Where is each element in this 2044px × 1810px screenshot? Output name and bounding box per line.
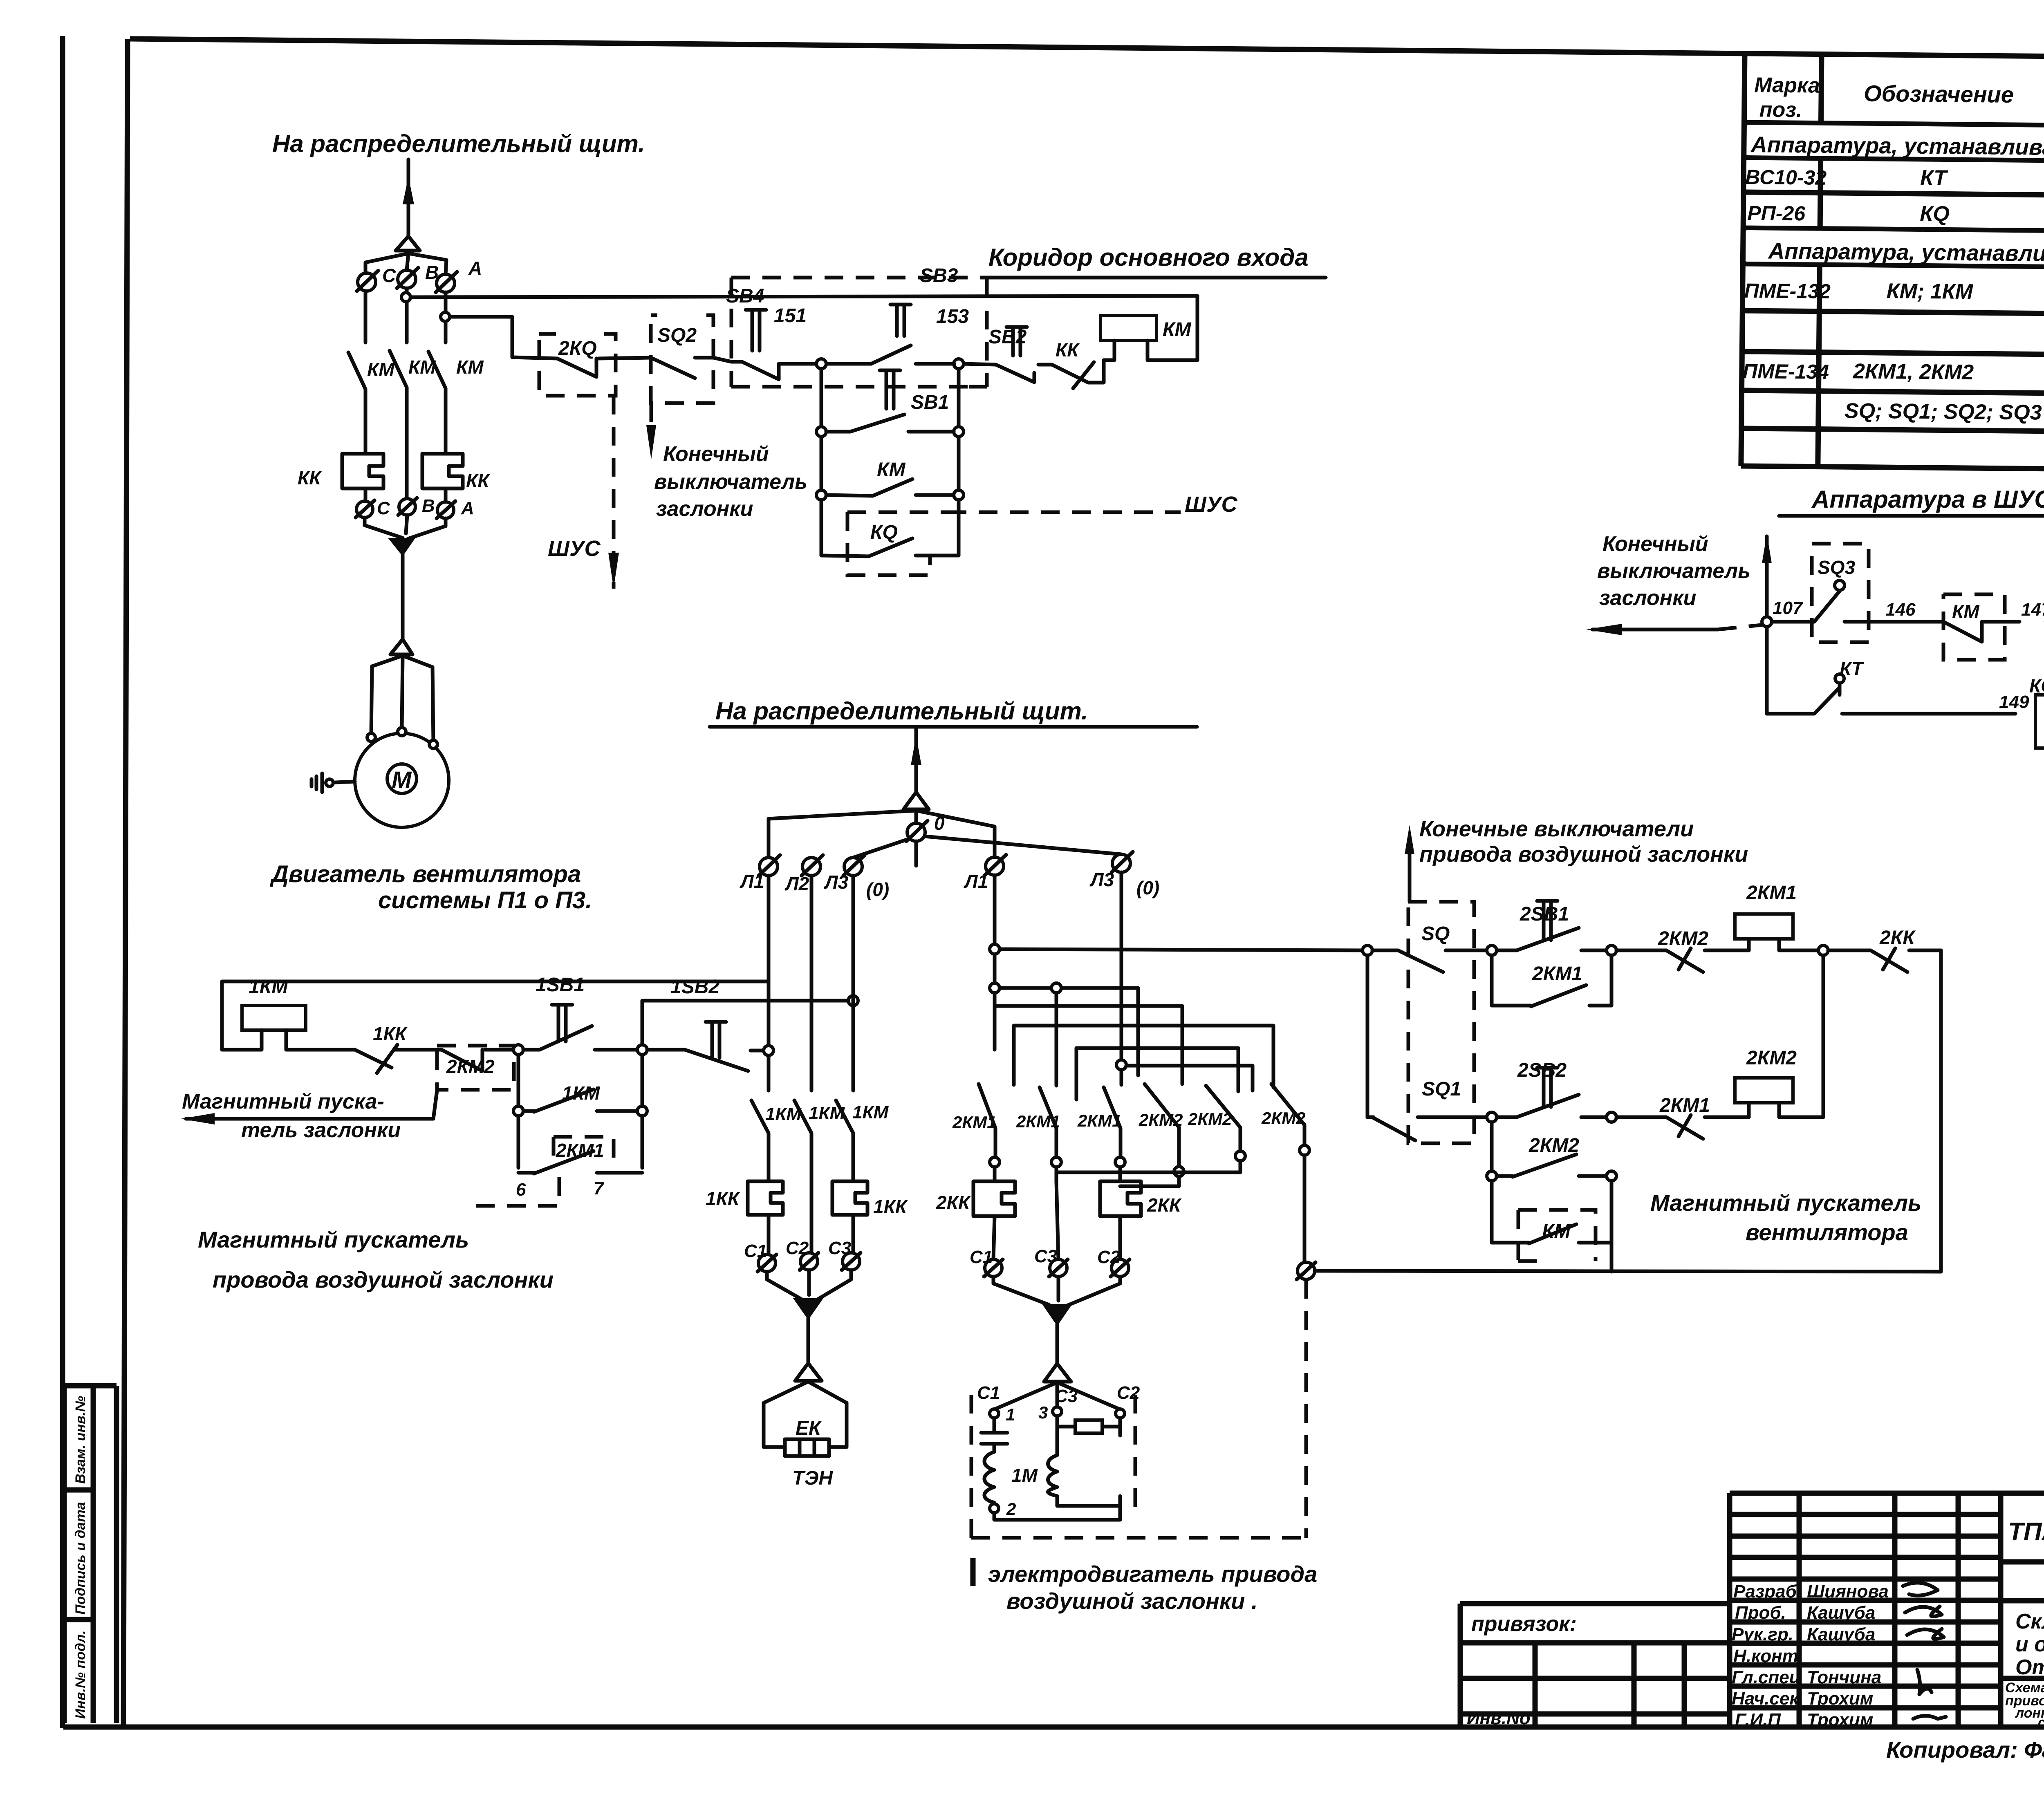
motor terminal circles	[367, 733, 375, 741]
wire: fan-in to cable mark	[767, 1270, 851, 1300]
svg-text:КМ: КМ	[367, 359, 395, 380]
svg-text:2КМ1, 2КМ2: 2КМ1, 2КМ2	[1853, 359, 1974, 384]
wire H6 crossover to c6	[1126, 1066, 1253, 1091]
node r1c	[1818, 945, 1828, 955]
arrow up at SQ box	[1408, 842, 1412, 902]
node 2b	[637, 1106, 647, 1116]
svg-text:SB1: SB1	[911, 392, 949, 413]
terminal circle L2	[802, 858, 820, 876]
svg-text:3: 3	[1038, 1403, 1048, 1422]
svg-text:ТЭН: ТЭН	[792, 1467, 833, 1489]
svg-text:Л3: Л3	[1089, 869, 1114, 890]
terminal circle C	[358, 273, 376, 291]
wire: down from node 1b	[641, 1055, 644, 1168]
svg-text:ШУС: ШУС	[1185, 492, 1237, 517]
svg-text:Рук.гр.: Рук.гр.	[1732, 1624, 1793, 1644]
terminal circle L1 left	[760, 858, 778, 876]
wire: to C circles of motor 2	[993, 1181, 1120, 1259]
contact 2KM2 #4	[1145, 1084, 1179, 1167]
terminal circle C lower	[356, 501, 373, 517]
node on L1 at row	[764, 1046, 773, 1055]
contact 2KM2 (self-hold)	[1497, 1154, 1607, 1177]
dashed enclosure top	[731, 276, 987, 280]
dashed enclosure bottom	[731, 385, 969, 389]
dashed box 2KM1	[554, 1137, 614, 1162]
svg-text:2КМ1: 2КМ1	[1077, 1111, 1122, 1130]
dashed box SQ/SQ1	[1408, 902, 1474, 1143]
terminal circle B lower	[399, 499, 415, 515]
svg-text:146: 146	[1885, 600, 1916, 620]
svg-text:2КМ1: 2КМ1	[556, 1140, 604, 1161]
solid box top (title underline)	[987, 276, 1326, 280]
svg-text:Конечный: Конечный	[663, 442, 769, 466]
terminal circle C2 (motor2)	[1112, 1259, 1129, 1277]
wire: neutral rail to fan section	[1315, 1271, 1941, 1272]
solid box bottom rail	[1104, 360, 1197, 365]
dashed link: 2KQ to ShUS (down)	[612, 396, 616, 589]
svg-text:Трохим: Трохим	[1807, 1689, 1873, 1709]
wire: branch at 2401 to coil	[222, 981, 769, 1050]
node c6 bottom	[1300, 1145, 1309, 1155]
svg-text:РП-26: РП-26	[1747, 202, 1806, 225]
svg-text:2КМ2: 2КМ2	[1529, 1135, 1579, 1156]
push button SB2	[996, 365, 1034, 382]
svg-text:КQ: КQ	[2029, 675, 2044, 697]
node r2a	[1487, 1112, 1497, 1122]
node on c3	[1116, 1060, 1126, 1070]
node r2b	[1607, 1112, 1616, 1122]
contact 2KM2 (NC interlock)	[442, 1050, 513, 1071]
svg-text:Инв.№ подл.: Инв.№ подл.	[73, 1630, 88, 1719]
contact 2KM2 (NC)	[1616, 948, 1749, 972]
node 151	[816, 359, 826, 369]
wire: 2KQ to SQ2	[598, 358, 651, 358]
svg-text:поз.: поз.	[1759, 98, 1802, 122]
svg-text:2КМ1: 2КМ1	[1532, 963, 1582, 985]
wire: fan-out to motor2 terminals	[994, 1382, 1120, 1409]
wire: L2 vertical	[810, 876, 814, 1091]
svg-text:2КМ1: 2КМ1	[1016, 1112, 1060, 1131]
node c4 bottom	[1174, 1167, 1184, 1176]
wire: cable shaft	[401, 555, 405, 639]
dashed link KQ to ShUS right	[948, 511, 1181, 514]
relay coil KQ	[2035, 695, 2044, 748]
node 151b	[816, 490, 826, 500]
svg-text:Магнитный пускатель: Магнитный пускатель	[1650, 1190, 1921, 1216]
svg-text:SQ1: SQ1	[1422, 1078, 1461, 1100]
terminal 1	[990, 1409, 999, 1418]
push button 1SB2	[647, 1050, 764, 1071]
terminal circle A	[437, 274, 455, 292]
cable mark triangle (middle)	[903, 792, 929, 809]
svg-text:SQ; SQ1; SQ2; SQ3: SQ; SQ1; SQ2; SQ3	[1845, 399, 2042, 424]
dashed box SQ2	[651, 315, 713, 403]
dashed link: SQ2 down arrow	[650, 403, 653, 439]
wire: cable shaft (heater)	[807, 1318, 810, 1363]
svg-text:1SB2: 1SB2	[670, 976, 719, 998]
svg-text:С1: С1	[970, 1247, 993, 1267]
svg-text:привода воздушной заслонки: привода воздушной заслонки	[1419, 842, 1748, 867]
svg-text:2: 2	[1006, 1499, 1016, 1519]
terminal 2	[990, 1504, 999, 1513]
svg-text:С2: С2	[786, 1238, 809, 1258]
heater EK element TEN	[785, 1439, 829, 1456]
thermal element KK phase A	[422, 454, 463, 488]
svg-text:2КМ1: 2КМ1	[1746, 882, 1797, 904]
svg-text:С1: С1	[977, 1383, 1000, 1403]
cable mark triangle (down)	[388, 538, 415, 556]
terminal circle 0	[907, 823, 925, 841]
svg-text:2КМ1: 2КМ1	[952, 1113, 997, 1132]
wire: fan-out to phase circles C B A	[365, 253, 446, 274]
node r3b	[1607, 1171, 1616, 1181]
contact KM (fan interlock)	[1492, 1181, 1611, 1243]
winding 1M	[984, 1452, 994, 1503]
wire: down from node 1a	[517, 1055, 520, 1168]
svg-text:Проб.: Проб.	[1735, 1603, 1786, 1623]
wire: phase A down	[444, 292, 448, 343]
svg-text:2КМ2: 2КМ2	[1188, 1109, 1232, 1129]
svg-text:Н.конт: Н.конт	[1733, 1646, 1798, 1666]
svg-text:1КК: 1КК	[873, 1196, 908, 1217]
svg-text:2SB2: 2SB2	[1517, 1060, 1567, 1081]
svg-text:КТ: КТ	[1920, 166, 1948, 190]
terminal (right)	[1116, 1409, 1125, 1418]
terminal circle C3	[843, 1253, 860, 1270]
thermal element 1KK (right)	[832, 1181, 867, 1215]
node: junction A to control feed	[441, 312, 450, 321]
node H2	[990, 983, 1000, 993]
contact 2KQ	[557, 358, 596, 377]
svg-text:1КК: 1КК	[706, 1188, 740, 1209]
node feed	[1363, 945, 1372, 955]
svg-text:1КМ: 1КМ	[562, 1082, 601, 1104]
contact 1KM phase 3	[836, 1100, 853, 1181]
svg-text:ПМЕ-132: ПМЕ-132	[1744, 279, 1831, 303]
svg-text:КМ: КМ	[456, 356, 484, 378]
terminal circle L3 right	[1112, 854, 1130, 872]
node r1a	[1487, 945, 1497, 955]
svg-text:Взам. инв.№: Взам. инв.№	[73, 1396, 88, 1484]
svg-text:1SB1: 1SB1	[536, 974, 585, 996]
svg-text:1КК: 1КК	[373, 1023, 408, 1044]
svg-text:(0): (0)	[1136, 877, 1159, 898]
svg-text:Гл.спец: Гл.спец	[1732, 1667, 1801, 1687]
svg-text:Разраб.: Разраб.	[1733, 1582, 1802, 1602]
svg-text:2КМ1: 2КМ1	[1659, 1095, 1710, 1116]
thermal contact KK	[1052, 362, 1104, 388]
svg-text:2КМ2: 2КМ2	[1261, 1109, 1306, 1128]
svg-text:КМ: КМ	[1542, 1221, 1571, 1242]
wire: c6 down to tap	[1303, 1155, 1307, 1262]
svg-text:заслонки: заслонки	[656, 497, 753, 521]
svg-text:Кашуба: Кашуба	[1807, 1624, 1875, 1644]
wire: right return rail	[1939, 950, 1943, 1272]
node 153b	[954, 490, 964, 500]
wire: KK to SB2	[1038, 363, 1052, 367]
contactor contact KM phase A	[428, 352, 446, 454]
contact 2KM2 #6	[1271, 1084, 1304, 1145]
dashed box motor2	[971, 1395, 1306, 1538]
coil legs 2KM2	[1749, 1103, 1823, 1117]
contact 1KM phase 2	[794, 1100, 811, 1252]
terminal circle C1 (motor2)	[985, 1259, 1002, 1277]
svg-text:привязок:: привязок:	[1471, 1612, 1577, 1636]
svg-text:Отдельно стоящий.: Отдельно стоящий.	[2015, 1655, 2044, 1679]
svg-text:В: В	[425, 262, 439, 283]
wire H1 feed to limit switches	[1000, 949, 1363, 950]
limit switch SQ	[1372, 950, 1487, 972]
dashed: tap down to motor2 box	[1304, 1280, 1308, 1538]
wire H3 crossover to c5	[995, 1006, 1182, 1084]
svg-text:Л2: Л2	[784, 873, 809, 894]
svg-text:воздушной заслонки .: воздушной заслонки .	[1006, 1588, 1258, 1614]
dashed enclosure left	[730, 278, 733, 387]
title block bottom right	[1730, 1493, 2044, 1730]
wire: node151 branch down	[820, 369, 823, 556]
dashed box KM (fan)	[1518, 1210, 1596, 1261]
node c2 bottom	[1051, 1157, 1061, 1167]
cable mark triangle (upper)	[396, 236, 420, 251]
svg-text:электродвигатель привода: электродвигатель привода	[988, 1561, 1317, 1587]
terminal circle B	[398, 270, 416, 288]
wire: c5 jog to c2	[1056, 1161, 1240, 1181]
contact 2KM1 (lower)	[518, 1151, 642, 1174]
svg-text:2SB1: 2SB1	[1520, 903, 1569, 925]
svg-text:2КQ: 2КQ	[558, 338, 597, 359]
wire: left riser with arrow	[1765, 536, 1769, 714]
svg-text:ВС10-32: ВС10-32	[1745, 166, 1827, 189]
node 153a	[954, 427, 964, 437]
wire: node153 branch down	[957, 369, 961, 556]
svg-text:М: М	[392, 767, 412, 793]
wire: c4 jog to c3	[1120, 1167, 1179, 1186]
left vertical strip	[64, 1386, 117, 1723]
contact 1KM (self-hold)	[523, 1089, 637, 1112]
wire: fan-out to motor terminals	[371, 656, 433, 741]
svg-text:SQ2: SQ2	[657, 325, 697, 346]
svg-text:Подпись и дата: Подпись и дата	[73, 1502, 88, 1615]
wire: down to C circles	[769, 1215, 853, 1254]
push button SB3 (NC)	[871, 345, 954, 364]
leader arrow (left)	[186, 1091, 437, 1119]
svg-text:На распределительный щит.: На распределительный щит.	[272, 130, 645, 157]
arrow up on feeder	[403, 177, 414, 204]
node c3 bottom	[1115, 1157, 1125, 1167]
svg-text:выключатель: выключатель	[1597, 559, 1750, 583]
node 151a	[816, 427, 826, 437]
coil 1KM legs	[262, 1030, 286, 1050]
contactor contact KM phase B	[390, 351, 407, 501]
svg-text:На распределительный щит.: На распределительный щит.	[715, 697, 1088, 725]
svg-text:Аппаратура, устанавливаемая по: Аппаратура, устанавливаемая по месту.	[1767, 238, 2044, 268]
svg-text:SQ3: SQ3	[1818, 557, 1855, 578]
svg-text:заслонки: заслонки	[1599, 586, 1696, 610]
svg-text:2КМ2: 2КМ2	[1658, 928, 1708, 950]
svg-text:SB3: SB3	[920, 265, 958, 287]
svg-text:КМ; 1КМ: КМ; 1КМ	[1886, 279, 1973, 304]
node ShUS left	[1762, 617, 1772, 627]
terminal circle C1	[758, 1254, 775, 1272]
wire: coil to 1KK	[286, 1048, 355, 1052]
svg-text:системы П3.: системы П3.	[2038, 1715, 2044, 1730]
contact 2KM1 #3	[1104, 1070, 1121, 1157]
svg-text:2КК: 2КК	[936, 1192, 971, 1213]
svg-text:ПМЕ-134: ПМЕ-134	[1743, 360, 1829, 383]
thermal contact 2KK	[1828, 948, 1941, 972]
svg-text:КМ: КМ	[1163, 319, 1192, 340]
contactor coil 2KM1	[1735, 914, 1793, 939]
wire: bus1 to corridor box	[410, 296, 1197, 297]
svg-text:КК: КК	[298, 467, 322, 488]
wire: 0 down	[914, 841, 918, 866]
cable mark triangle up (heater)	[795, 1363, 822, 1381]
wire: down from r2a to row3	[1490, 1122, 1494, 1176]
contact 2KM1 (bypass)	[1492, 955, 1611, 1006]
contact 2KM1 (NC row2)	[1616, 1115, 1749, 1139]
contactor coil 1KM	[242, 1006, 306, 1030]
thermal element 2KK (right)	[1100, 1181, 1141, 1216]
ground symbol	[312, 773, 322, 792]
svg-text:системы П1 о П3.: системы П1 о П3.	[378, 887, 592, 914]
wire: fan-in (motor2)	[993, 1277, 1120, 1306]
coil legs 2KM1	[1749, 939, 1818, 950]
arrow under SQ2	[646, 425, 656, 459]
svg-text:КК: КК	[466, 470, 490, 491]
svg-text:Магнитный пуска-: Магнитный пуска-	[182, 1090, 384, 1113]
svg-text:1КМ: 1КМ	[852, 1102, 889, 1122]
starting resistor	[1057, 1416, 1120, 1436]
svg-text:Тончина: Тончина	[1807, 1667, 1881, 1687]
svg-text:1КМ: 1КМ	[249, 976, 288, 998]
wire: L3 vertical	[852, 876, 855, 1091]
terminal circle C2	[800, 1253, 818, 1270]
svg-text:КМ: КМ	[1952, 601, 1980, 622]
terminal circle C3 (motor2)	[1050, 1259, 1067, 1277]
svg-text:Коридор основного входа: Коридор основного входа	[988, 244, 1309, 271]
svg-text:Обозначение: Обозначение	[1864, 81, 2014, 108]
wire: A down to lower terminal	[444, 488, 448, 502]
svg-text:Г.И.П: Г.И.П	[1735, 1710, 1781, 1730]
svg-text:С: С	[382, 265, 396, 286]
svg-text:Склад материалов: Склад материалов	[2015, 1610, 2044, 1633]
contactor contact KM phase C	[348, 352, 365, 454]
svg-text:Нач.сек.: Нач.сек.	[1732, 1689, 1804, 1709]
svg-text:SB2: SB2	[988, 326, 1027, 348]
dashed box KQ	[847, 512, 948, 575]
winding 2 (aux)	[1048, 1427, 1121, 1506]
svg-text:Л1: Л1	[740, 871, 764, 892]
wire: bottom link inside motor2	[994, 1496, 1120, 1520]
svg-text:SQ: SQ	[1421, 923, 1450, 945]
svg-text:и оборудования.: и оборудования.	[2015, 1633, 2044, 1656]
svg-text:Конечные выключатели: Конечные выключатели	[1419, 817, 1694, 841]
wire: fan-out to EK	[764, 1382, 847, 1447]
push button 2SB2	[1497, 1095, 1607, 1117]
svg-text:151: 151	[774, 305, 807, 327]
node 2a	[513, 1106, 523, 1116]
motor M outer circle	[355, 733, 449, 827]
svg-text:Шиянова: Шиянова	[1807, 1582, 1889, 1602]
svg-text:КМ: КМ	[408, 356, 436, 378]
svg-text:6: 6	[516, 1180, 526, 1200]
svg-text:Аппаратура в ШУС: Аппаратура в ШУС	[1811, 486, 2044, 513]
capacitor (phase-shift)	[981, 1418, 1007, 1452]
wire: fan-in to cable mark	[365, 515, 446, 539]
svg-text:Л1: Л1	[964, 871, 988, 892]
wire: stub from dashed top to solid box top	[985, 278, 989, 296]
limit switch SQ3	[1772, 591, 1840, 622]
wire: fan-out to L1 L2 L3 0	[769, 811, 1121, 858]
wire H5 crossover	[1076, 1048, 1238, 1100]
svg-text:КQ: КQ	[870, 522, 898, 543]
push button SB4	[731, 362, 816, 379]
limit switch SQ2	[651, 358, 731, 378]
svg-text:Марка: Марка	[1754, 73, 1820, 97]
contact 2KM1 #2	[1040, 993, 1056, 1157]
svg-text:С3: С3	[828, 1238, 851, 1258]
node 153	[954, 359, 964, 369]
terminal 3	[1053, 1407, 1062, 1416]
contact KM (self-hold)	[826, 479, 954, 496]
cable mark triangle down (heater)	[793, 1298, 823, 1320]
svg-text:провода воздушной заслонки: провода воздушной заслонки	[213, 1267, 554, 1293]
svg-text:А: А	[468, 258, 482, 279]
svg-text:С: С	[377, 498, 390, 518]
svg-text:Инв.No: Инв.No	[1467, 1708, 1531, 1728]
contact KM (NC in ShUS)	[1943, 622, 2019, 642]
thermal element KK phase C	[342, 454, 383, 488]
dashed box SQ3	[1812, 544, 1869, 642]
wire: shaft (motor2)	[1056, 1324, 1059, 1364]
dashed tick left of label	[970, 1558, 976, 1586]
svg-text:ШУС: ШУС	[548, 536, 601, 561]
wire: node151 to SB3	[826, 362, 871, 366]
coil KM legs	[1114, 340, 1148, 360]
svg-text:А: А	[461, 498, 474, 518]
svg-text:1КМ: 1КМ	[809, 1103, 845, 1123]
svg-text:С3: С3	[1034, 1246, 1057, 1266]
table top right	[1741, 54, 2044, 475]
underline	[1779, 514, 2044, 518]
svg-text:(0): (0)	[866, 879, 889, 900]
terminal circle (0 tap)	[1298, 1262, 1315, 1279]
wire: L1 left vertical	[767, 876, 771, 1091]
svg-text:1М: 1М	[1011, 1465, 1038, 1486]
svg-text:ЕК: ЕК	[796, 1418, 822, 1439]
leader arrow left (ShUS)	[1592, 628, 1718, 632]
svg-text:Магнитный пускатель: Магнитный пускатель	[198, 1227, 469, 1252]
push button 2SB1	[1497, 928, 1607, 950]
svg-text:107: 107	[1773, 598, 1804, 618]
svg-text:147: 147	[2021, 600, 2044, 620]
wire: left vertical to SQ1	[1366, 955, 1369, 1117]
wire: KM row to rail	[1610, 1243, 1614, 1272]
wire: L3 right vertical	[1120, 872, 1123, 1065]
svg-text:Л3: Л3	[824, 871, 849, 893]
row2: contact KT + coil KQ	[1767, 682, 2015, 714]
svg-text:КQ: КQ	[1920, 202, 1950, 226]
svg-text:выключатель: выключатель	[654, 470, 807, 494]
cable mark triangle (motor side)	[390, 639, 412, 654]
svg-text:2КМ2: 2КМ2	[1139, 1110, 1183, 1129]
terminal circle L3 left	[844, 858, 862, 876]
svg-text:Копировал: Фарбун.: Копировал: Фарбун.	[1886, 1737, 2044, 1763]
wire: link rows at 2KK input	[1822, 955, 1825, 1117]
wire: node153 to SB2	[963, 364, 996, 365]
solid box right edge	[1196, 296, 1199, 360]
svg-text:1: 1	[1006, 1405, 1015, 1424]
